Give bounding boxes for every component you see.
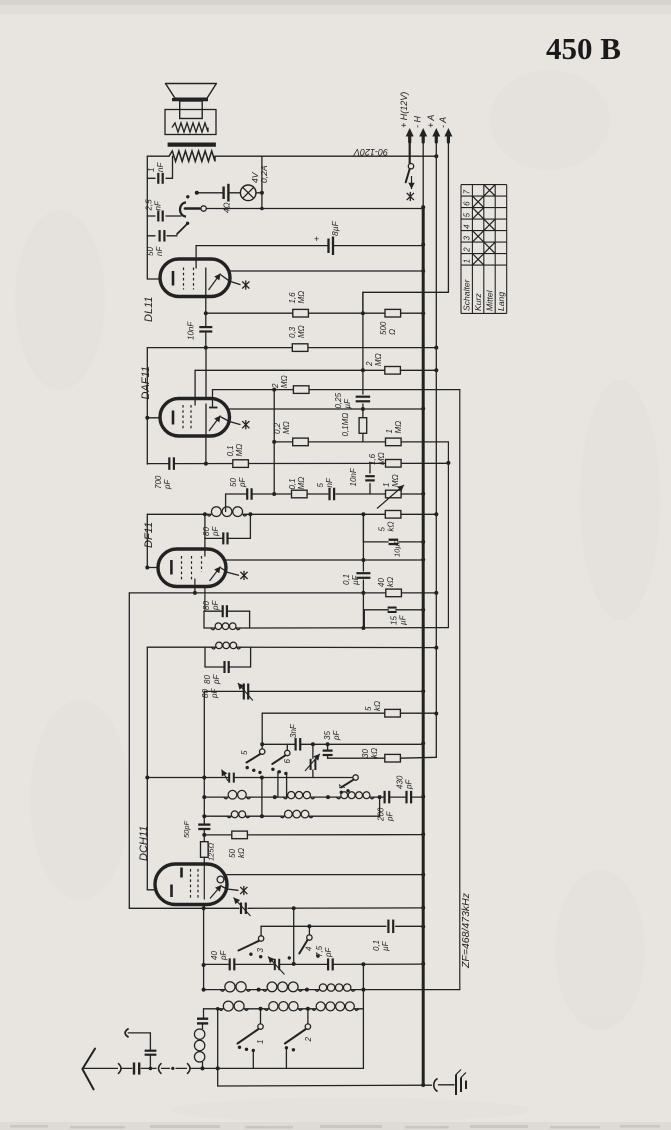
svg-text:pF: pF [163,479,172,490]
wire DF11 left lead [147,567,158,569]
svg-text:pF: pF [219,950,228,961]
svg-text:MΩ: MΩ [377,452,386,465]
capacitor 10nF coupling [369,463,371,473]
wire left column b [146,348,148,465]
tube DAF11 [160,399,230,437]
wire DF11 anode row [226,559,423,561]
filament star DL11 [230,281,240,284]
transformer core [168,143,216,147]
svg-text:80: 80 [202,601,211,610]
IF2 capacitor 80pF [204,610,222,612]
svg-text:7,5: 7,5 [315,945,324,957]
svg-text:+ H(12V): + H(12V) [399,92,409,128]
svg-text:- H: - H [413,116,423,128]
svg-text:MΩ: MΩ [374,353,383,366]
svg-text:pF: pF [211,526,220,537]
wire DCH11 bottom lead [203,905,205,909]
wire row C grid DAF [195,369,385,371]
svg-text:MΩ: MΩ [282,421,291,434]
svg-text:700: 700 [154,475,163,489]
resistor 0,1Mohm vertical [359,418,367,434]
svg-text:0,3: 0,3 [288,326,297,338]
svg-text:kΩ: kΩ [370,748,379,758]
svg-text:pF: pF [332,730,341,741]
resistor 0,2Mohm [293,438,309,446]
svg-text:µF: µF [381,940,390,951]
svg-text:10nF: 10nF [349,467,358,486]
svg-text:nF: nF [156,162,165,172]
oscillator coil row 2 [204,815,231,817]
svg-text:pF: pF [324,947,333,958]
svg-text:5: 5 [463,212,472,217]
antenna connector arc 1 [118,1063,121,1074]
trimmer 80pF [243,684,245,700]
svg-text:MΩ: MΩ [235,444,244,457]
svg-text:1: 1 [463,259,472,263]
antenna connector arc 2 [159,1063,162,1074]
svg-text:1: 1 [385,429,394,433]
resistor 50kohm [232,831,248,839]
wire DAF anode lead [205,436,207,464]
mains switch [408,164,413,169]
antenna coil row 2 box top [204,1008,223,1010]
svg-text:kΩ: kΩ [373,701,382,711]
svg-text:Schalter: Schalter [462,278,472,311]
svg-text:pF: pF [211,600,220,611]
svg-text:pF: pF [386,811,395,822]
table crosses Kurz [472,196,483,208]
svg-text:0,1: 0,1 [288,478,297,489]
wire box bottom [203,1067,364,1069]
svg-text:pF: pF [212,674,221,685]
svg-text:µF: µF [343,398,352,409]
svg-text:7: 7 [463,189,472,194]
tuning trimmer oscillator [240,903,242,915]
antenna series capacitor [133,1063,135,1075]
svg-text:2: 2 [365,361,374,367]
antenna coupling coil [202,1023,204,1028]
earth connector jaw [125,1029,129,1038]
svg-text:50: 50 [229,478,238,487]
svg-text:10µF: 10µF [393,539,402,557]
wire DAF screen top [205,348,207,399]
wire row 5kohm second [262,712,385,714]
svg-text:+: + [314,234,319,244]
svg-text:80: 80 [201,689,210,698]
terminal +H(12V) [409,131,411,163]
tube DF11 [158,549,226,587]
trimmer osc coupling [228,773,230,783]
svg-text:Ω: Ω [388,329,397,335]
svg-text:6: 6 [463,201,472,206]
filament star DCH11 [227,889,238,890]
resistor 1,6Mohm [293,309,309,317]
svg-text:MΩ: MΩ [297,325,306,338]
wire ground row [218,1084,432,1087]
electrolytic 10uF [362,514,364,542]
switch 6 [286,744,288,750]
tube DL11 [160,259,230,297]
svg-text:40: 40 [377,578,386,587]
wire row osc grid [204,690,244,692]
wire osc grid line L12 [203,691,205,824]
svg-text:10nF: 10nF [187,321,196,340]
wire 4V row [147,155,169,157]
capacitor 10nF [205,297,207,327]
switch 4 [308,926,310,935]
resistor 2Mohm second [293,386,309,394]
svg-text:8µF: 8µF [330,220,340,236]
capacitor 3nF [295,738,297,751]
IF1 coil [147,513,211,515]
loudspeaker [166,84,217,99]
resistor 2Mohm [385,367,401,375]
svg-text:MΩ: MΩ [394,421,403,434]
wire L15 [362,964,364,1068]
wire row mixer grid [261,925,309,927]
capacitor 430pF [405,791,407,804]
svg-text:MΩ: MΩ [280,375,289,388]
svg-text:- A: - A [438,117,448,128]
output transformer T1 primary winding [169,151,215,161]
svg-text:1,6: 1,6 [288,292,297,304]
wire row below DCH11 [129,907,239,909]
svg-text:90-120V: 90-120V [353,147,388,157]
wire row D [274,441,292,443]
capacitor 50nF [147,235,155,237]
resistor 40kohm [386,589,402,597]
main bus -H wire [422,207,425,1085]
filament star DF11 [228,573,239,576]
svg-text:1,6: 1,6 [368,453,377,465]
capacitor 50pF [246,488,248,500]
wire DF11 to IF2 [204,587,206,612]
wire grid feed DL11 [195,246,197,261]
wire row osc coupling [147,777,229,779]
wire left column L30 [128,593,130,908]
wire left column [146,156,148,279]
resistor 1,6Mohm second [386,460,402,468]
wire DAF left lead [147,417,160,419]
svg-text:Kurz: Kurz [473,293,483,311]
wire ground riser [217,1009,219,1086]
wire switch6 contact stubs [277,772,279,798]
wire L14 [293,908,295,964]
wire row B screen [147,347,292,349]
svg-text:pF: pF [210,688,219,699]
capacitor 1nF [147,177,155,179]
svg-text:Lang: Lang [496,292,506,311]
resistor 30kohm [385,754,401,762]
svg-text:kΩ: kΩ [386,577,395,587]
svg-text:1: 1 [147,168,156,172]
svg-text:nF: nF [155,246,164,256]
wire AVC riser L10 [273,390,275,494]
switch 1 [260,1009,262,1024]
resistor 0,1Mohm third [292,490,308,498]
ground symbol [455,1075,457,1096]
capacitor 7,5pF [327,958,329,970]
wire row anode DAF [147,463,168,465]
svg-text:nF: nF [154,200,163,210]
antenna symbol [82,1049,95,1090]
capacitor 0,1uF [356,572,370,574]
switch 3 [260,926,262,936]
svg-text:MΩ: MΩ [297,477,306,490]
resistor 5kohm second [385,709,401,717]
svg-text:2: 2 [304,1037,313,1043]
IF3 capacitor 80pF [204,647,206,667]
antenna coupling capacitor [203,1009,205,1018]
tone switch jaw [180,203,186,217]
svg-text:0,25: 0,25 [334,392,343,408]
wire DF11 bottom lead [194,587,196,593]
svg-text:+ A: + A [426,115,436,128]
svg-text:6: 6 [283,759,292,764]
wire DL11 left lead [147,278,160,280]
svg-text:35: 35 [323,731,332,740]
svg-text:pF: pF [405,779,414,790]
wire ladder L8 [362,292,364,394]
svg-text:40: 40 [210,951,219,960]
svg-text:MΩ: MΩ [297,291,306,304]
svg-text:DCH11: DCH11 [138,826,150,861]
svg-text:MΩ: MΩ [391,474,400,487]
wire grid line L6 [459,390,461,990]
svg-text:5: 5 [364,706,373,711]
wire DCH11 left lead [147,889,155,891]
antenna coil row 1 [204,989,225,991]
wire row 30kohm [328,757,385,759]
IF2 coil [204,627,215,629]
wire to IF1 [225,494,227,512]
wire L13 [203,908,205,989]
table crosses Mittel [484,185,495,197]
resistor 125ohm [201,842,209,858]
wire row 3nF [262,743,294,745]
wire lamp branch [261,156,263,208]
svg-text:1: 1 [382,483,391,487]
svg-text:DL11: DL11 [143,297,155,322]
wire lamp row [197,192,224,194]
svg-text:DAF11: DAF11 [140,366,152,399]
trimmer 35pF [327,744,329,749]
connector break symbol [434,1079,438,1092]
terminal -H [422,131,424,207]
wire row 50kohm [204,834,231,836]
tube DCH11 [155,864,227,905]
oscillator padder trimmer [312,744,314,758]
capacitor 5nF [328,488,330,501]
svg-text:0,1MΩ: 0,1MΩ [341,413,350,437]
svg-text:4: 4 [463,224,472,229]
svg-text:1: 1 [256,1040,265,1044]
electrolytic 8uF [196,245,328,247]
svg-text:µF: µF [351,574,360,585]
resistor 1Mohm [386,438,402,446]
svg-text:5: 5 [316,483,325,488]
svg-text:50: 50 [228,849,237,858]
electrolytic 15uF [364,609,423,611]
wire row A anode DL11 [206,312,293,314]
svg-text:5: 5 [240,750,249,755]
svg-text:15: 15 [390,616,399,625]
svg-text:2: 2 [463,247,472,253]
svg-text:nF: nF [325,477,334,487]
svg-text:200: 200 [377,807,386,822]
capacitor 0,25uF [356,396,371,398]
svg-text:7: 7 [338,784,347,789]
svg-text:µF: µF [399,614,408,625]
wire row diode DAF [213,389,460,391]
resistor 0,1Mohm anode [233,460,249,468]
switch 2 [307,1009,309,1024]
svg-text:125Ω: 125Ω [207,842,216,861]
svg-text:pF: pF [238,477,247,488]
svg-text:2: 2 [271,383,280,389]
svg-text:kΩ: kΩ [387,521,396,531]
switch 7 [353,775,358,780]
svg-text:5: 5 [378,527,387,532]
terminal +A [435,131,437,756]
capacitor 200pF [384,791,386,804]
svg-text:3: 3 [256,948,265,953]
svg-text:450 B: 450 B [546,31,621,66]
resistor 0,3Mohm [292,344,308,352]
svg-text:500: 500 [379,321,388,335]
svg-text:3: 3 [463,235,472,240]
terminal -A [447,131,449,292]
resistor 5kohm [385,511,401,519]
svg-text:4Ω: 4Ω [223,202,232,213]
svg-text:50pF: 50pF [182,820,191,838]
wire row antenna caps [204,963,229,965]
wire left column c [146,514,148,567]
switch 5 [260,749,265,754]
svg-text:80: 80 [203,675,212,684]
wire switch row to bus [206,208,423,210]
svg-text:2,5: 2,5 [145,199,154,212]
capacitor 2,5nF [147,215,155,217]
wire left column d [146,647,148,890]
svg-text:4: 4 [305,946,314,951]
wire row E diode out [230,408,424,410]
potentiometer 1Mohm [386,490,402,498]
filament star DAF11 [230,422,241,425]
wire DCH11 anode row [227,874,423,876]
wire switch5 stem [261,713,263,749]
svg-text:ZF=468/473kHz: ZF=468/473kHz [460,892,472,969]
wire riser to -A [362,292,364,313]
wire row AF output [226,493,246,495]
output transformer T1 secondary [165,110,216,135]
IF1 capacitor 80pF [204,514,206,538]
band switch table [461,185,507,314]
svg-text:430: 430 [396,775,405,789]
capacitor 4ohm [222,187,224,200]
pilot lamp 4V 0,2A [240,185,256,201]
wire row 40kohm [129,592,386,594]
capacitor 50pF osc grid [198,823,210,825]
trimmer 40pF second [274,959,276,970]
capacitor 40pF [229,958,231,970]
svg-text:DF11: DF11 [143,522,155,548]
svg-text:0,2A: 0,2A [259,165,269,183]
wire ladder L9 [362,514,364,571]
svg-text:Mittel: Mittel [484,289,494,311]
svg-text:30: 30 [361,749,370,758]
wire switch5 stem lower [261,778,263,817]
earth branch capacitor [149,1056,151,1069]
capacitor 700pF [168,457,170,470]
oscillator coil row 1 [204,796,228,798]
svg-text:3nF: 3nF [289,723,298,738]
antenna connector arc 3 [187,1063,190,1074]
svg-text:80: 80 [202,527,211,536]
svg-text:0,1: 0,1 [226,445,235,456]
svg-text:0,1: 0,1 [342,574,351,585]
resistor 500ohm [385,309,401,317]
capacitor 0,1uF antenna [387,920,389,934]
wire DL11 anode row [230,270,423,272]
svg-text:kΩ: kΩ [237,848,246,858]
IF3 coil [147,646,215,648]
svg-text:0,1: 0,1 [372,940,381,951]
